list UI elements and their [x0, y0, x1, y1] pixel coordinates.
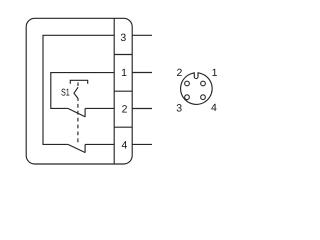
svg-text:2: 2 — [176, 67, 182, 79]
svg-text:4: 4 — [121, 140, 127, 152]
switch S1 push actuator bracket — [70, 80, 87, 84]
wire terminal 3 to lower contact — [43, 35, 114, 144]
switch body outline U1 — [26, 18, 132, 164]
external lead terminal 1 — [132, 72, 152, 74]
external lead terminal 4 — [132, 143, 152, 145]
external lead terminal 2 — [132, 108, 152, 110]
contact K2 moving arm (terminals 3-4) — [68, 144, 85, 152]
mechanical link dashed line — [77, 104, 79, 145]
connector pin 2 (top-left) — [185, 81, 190, 86]
wire contact K1 to terminal 2 — [85, 107, 114, 109]
actuator spring wedge — [74, 87, 78, 101]
wire terminal 1 to upper contact — [51, 73, 114, 109]
svg-text:3: 3 — [176, 103, 182, 115]
svg-text:1: 1 — [121, 67, 127, 79]
terminal strip left edge — [113, 18, 115, 164]
wire contact K2 to terminal 4 — [85, 143, 114, 145]
external lead terminal 3 — [132, 34, 152, 36]
M12 connector shell with keyway gap — [181, 73, 213, 105]
contact K2 fixed tick — [84, 144, 86, 152]
connector keyway notch — [194, 72, 198, 78]
terminal divider 1/2 — [114, 90, 132, 92]
svg-text:3: 3 — [120, 32, 126, 44]
actuator stem dash — [77, 82, 79, 86]
svg-text:S1: S1 — [61, 87, 70, 98]
connector pin 4 (bottom-right) — [201, 95, 206, 100]
svg-text:4: 4 — [211, 102, 217, 114]
terminal divider 3/1 — [114, 54, 132, 56]
connector pin 1 (top-right) — [201, 81, 206, 86]
svg-text:1: 1 — [212, 67, 218, 79]
contact K1 moving arm (terminals 1-2) — [68, 108, 85, 117]
svg-text:2: 2 — [122, 104, 128, 116]
contact K1 fixed tick — [84, 108, 86, 117]
terminal divider 2/4 — [114, 126, 132, 128]
connector pin 3 (bottom-left) — [185, 95, 190, 100]
